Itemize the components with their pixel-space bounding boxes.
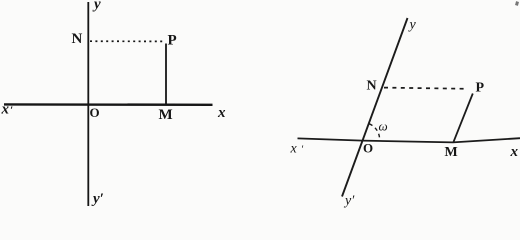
svg-text:y′: y′	[91, 191, 104, 207]
svg-text:x: x	[510, 144, 519, 160]
svg-text:y: y	[408, 18, 417, 33]
svg-text:x: x	[217, 105, 226, 121]
svg-text:N: N	[367, 79, 377, 94]
svg-text:O: O	[363, 141, 373, 156]
svg-text:O: O	[90, 105, 100, 120]
svg-text:y′: y′	[343, 194, 355, 209]
svg-text:P: P	[476, 81, 485, 96]
svg-text:y: y	[92, 0, 101, 13]
svg-text:x′: x′	[1, 102, 14, 118]
svg-text:x′: x′	[290, 142, 304, 157]
svg-text:P: P	[168, 33, 177, 49]
svg-text:M: M	[445, 145, 458, 160]
svg-text:N: N	[72, 31, 83, 47]
svg-text:ω: ω	[379, 119, 388, 134]
svg-text:M: M	[159, 107, 173, 123]
